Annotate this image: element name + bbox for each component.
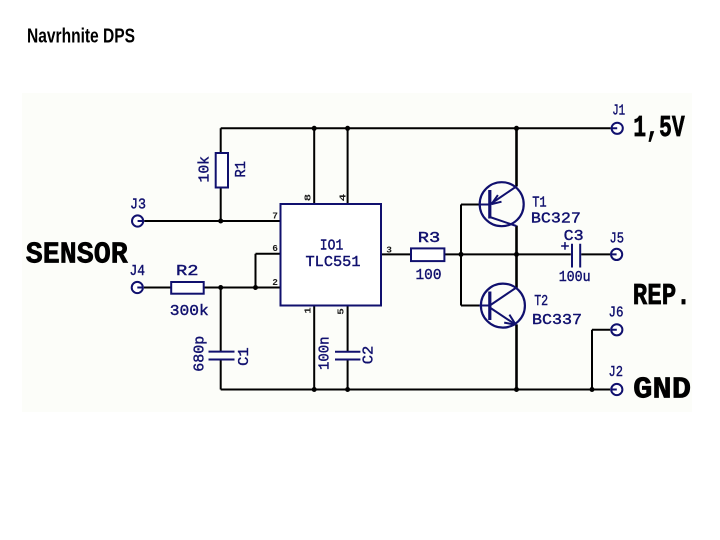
svg-text:4: 4: [337, 194, 348, 202]
svg-text:C2: C2: [360, 346, 377, 365]
svg-text:IO1: IO1: [320, 237, 344, 254]
svg-text:J2: J2: [609, 364, 624, 381]
svg-text:R2: R2: [176, 263, 199, 280]
svg-text:T2: T2: [534, 293, 548, 310]
svg-text:680p: 680p: [191, 336, 208, 372]
svg-text:BC327: BC327: [531, 211, 581, 228]
svg-text:SENSOR: SENSOR: [26, 238, 128, 273]
svg-text:1: 1: [302, 307, 313, 314]
svg-text:100: 100: [416, 267, 442, 284]
svg-text:8: 8: [302, 194, 313, 202]
svg-text:R1: R1: [233, 161, 250, 178]
svg-text:J4: J4: [130, 263, 146, 280]
svg-text:10k: 10k: [197, 156, 214, 183]
svg-text:J6: J6: [609, 305, 624, 322]
svg-text:+: +: [561, 239, 570, 256]
svg-text:100u: 100u: [559, 269, 591, 286]
svg-text:REP.: REP.: [633, 279, 691, 314]
svg-text:R3: R3: [418, 230, 441, 247]
svg-text:1,5V: 1,5V: [633, 111, 685, 146]
svg-text:2: 2: [272, 277, 278, 288]
svg-text:J1: J1: [612, 103, 625, 120]
svg-text:BC337: BC337: [532, 312, 582, 329]
svg-text:6: 6: [272, 243, 278, 254]
svg-text:100n: 100n: [317, 337, 334, 371]
svg-text:3: 3: [386, 245, 392, 256]
svg-text:J5: J5: [610, 231, 625, 248]
svg-text:TLC551: TLC551: [306, 254, 361, 271]
svg-text:5: 5: [335, 308, 346, 315]
svg-text:300k: 300k: [170, 303, 209, 320]
svg-text:T1: T1: [532, 195, 547, 212]
svg-text:GND: GND: [633, 373, 691, 408]
svg-text:C1: C1: [236, 347, 253, 366]
svg-text:Navrhnite DPS: Navrhnite DPS: [27, 25, 135, 48]
svg-text:J3: J3: [130, 197, 146, 214]
svg-text:7: 7: [272, 211, 278, 222]
